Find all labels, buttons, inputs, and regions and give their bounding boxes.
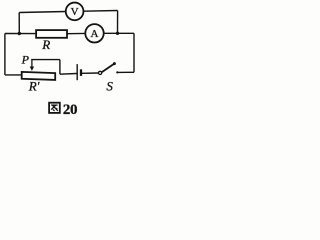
- wire vertical stub right of voltmeter branch: [117, 11, 119, 34]
- wire row3 segment c (switch to right rail): [117, 71, 134, 73]
- switch lever tip dot: [113, 62, 116, 65]
- wire left rail vertical: [4, 34, 6, 75]
- junction dot left: [18, 32, 21, 35]
- wiper arrow shaft: [31, 59, 33, 67]
- wiper lead vertical drop: [59, 60, 61, 75]
- svg-text:R: R: [41, 37, 50, 52]
- wiper lead horizontal: [31, 59, 60, 61]
- svg-text:V: V: [71, 6, 79, 18]
- wire row1 left (top-left corner to voltmeter): [19, 12, 66, 13]
- battery long plate: [76, 64, 78, 80]
- voltmeter V circle: [66, 3, 84, 21]
- svg-text:R′: R′: [28, 79, 40, 94]
- svg-text:S: S: [106, 79, 113, 94]
- figure caption: hand-drawn 图 glyph: [49, 103, 60, 113]
- wiper arrow head: [30, 67, 34, 71]
- wire row1 right (voltmeter to top-right corner): [83, 10, 117, 13]
- switch left terminal circle: [99, 71, 102, 74]
- resistor R box: [36, 30, 67, 38]
- svg-text:20: 20: [63, 102, 77, 118]
- wire row2 segment a (left rail to resistor R): [5, 33, 36, 35]
- wire row2 segment c (ammeter to right rail): [104, 32, 134, 34]
- ammeter A circle: [85, 24, 103, 42]
- wire vertical stub left of voltmeter branch: [18, 13, 20, 34]
- wire row3 segment a (wiper drop to battery): [60, 73, 77, 76]
- svg-text:P: P: [21, 53, 30, 67]
- switch right terminal dot: [116, 71, 118, 73]
- wire row2 segment b (resistor R to ammeter): [68, 32, 86, 34]
- junction dot right: [116, 32, 119, 35]
- svg-text:A: A: [91, 28, 99, 40]
- switch lever: [102, 64, 115, 73]
- wire right rail vertical: [133, 33, 135, 72]
- wire row3 segment b (battery to switch): [82, 72, 98, 74]
- rheostat R' box (slightly skewed): [22, 72, 56, 80]
- battery short thick plate: [80, 69, 82, 76]
- wire left rail to rheostat box: [5, 74, 22, 76]
